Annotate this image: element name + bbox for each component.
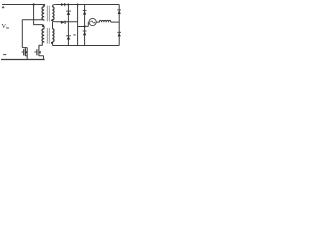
svg-text:Vin: Vin (2, 24, 9, 30)
